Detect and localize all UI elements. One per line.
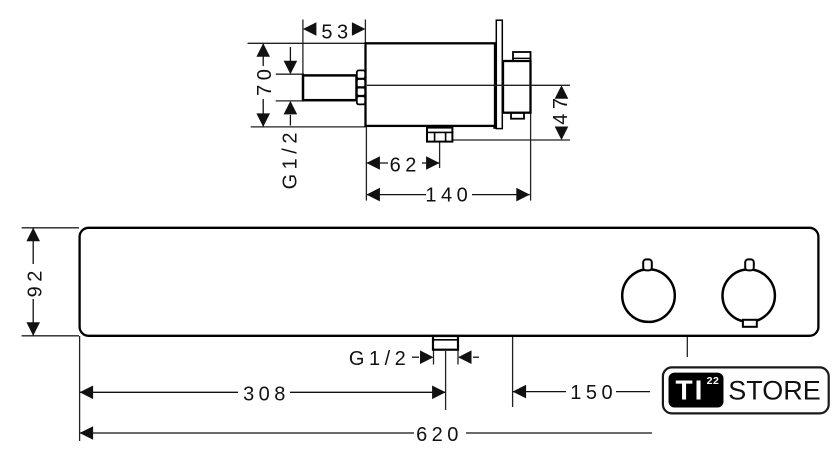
outlet knob top tab (513, 52, 531, 61)
svg-text:70: 70 (254, 65, 276, 96)
threaded connector ridge 3 (357, 88, 365, 96)
nut face divider right (445, 132, 447, 141)
main body rectangle (366, 43, 496, 126)
threaded connector ridge 2 (357, 79, 365, 87)
nut face divider left (434, 132, 436, 141)
svg-text:53: 53 (321, 21, 352, 43)
wire extension below bar between knobs (150 dim right) (686, 336, 688, 359)
knob 1 top nub (643, 259, 652, 270)
dimension 620 (80, 423, 652, 446)
svg-text:308: 308 (243, 383, 290, 405)
outlet lip line (433, 339, 458, 341)
dimension 308 (80, 382, 446, 405)
wire pipe-bottom extension line (G1/2 dim) (276, 100, 304, 102)
dimension 150 (513, 382, 652, 404)
inlet pipe spigot (303, 75, 357, 100)
dimension 140 (366, 184, 529, 206)
bottom nut on body (427, 128, 452, 142)
wire G1/2 left extension (433, 350, 435, 365)
svg-text:G1/2: G1/2 (280, 128, 302, 189)
wire extension line left of 53 dim (302, 20, 304, 75)
main bar (front elevation) (80, 228, 819, 336)
TI STORE logo outer box (663, 367, 829, 413)
wire extension line at knob right edge (140 dim) (530, 52, 532, 201)
svg-text:62: 62 (390, 154, 421, 176)
wire extension line right of 53 dim (364, 20, 366, 44)
outlet knob top tab inner line (513, 57, 531, 59)
knob 2 bottom tab (743, 320, 757, 327)
wire lower extension line of 47 dim (452, 139, 570, 141)
dimension 53 (303, 21, 366, 43)
outlet knob bottom tab (511, 113, 524, 119)
wire bar-bottom extension line (92 dim) (22, 335, 79, 337)
wire extension below bar at 150 dim left (512, 336, 514, 407)
svg-text:140: 140 (425, 184, 472, 206)
threaded connector ridge 4 (357, 96, 365, 104)
wire pipe-top extension line (G1/2 dim) (276, 73, 304, 75)
wire body-bottom extension line (70 dim, lower) (251, 126, 366, 128)
wire extension line below body left edge (62/140 dims) (365, 127, 367, 201)
svg-text:TI: TI (676, 375, 705, 406)
svg-text:150: 150 (570, 382, 617, 404)
wire bar-top extension line (92 dim) (22, 227, 79, 229)
svg-text:92: 92 (25, 266, 47, 297)
svg-text:47: 47 (550, 93, 572, 124)
dimension 92 (rotated) (25, 228, 47, 336)
flange bottom foot (493, 125, 497, 128)
knob circle 2 (723, 269, 775, 321)
wall flange plate (496, 20, 502, 128)
svg-text:STORE: STORE (728, 376, 821, 406)
svg-text:G1/2: G1/2 (349, 348, 410, 370)
wire extension below outlet center (308 dim) (445, 351, 447, 410)
knob 2 top nub (745, 259, 754, 270)
outlet knob main (503, 61, 531, 113)
dimension 47 (rotated) (550, 85, 572, 140)
wire G1/2 right extension (457, 350, 459, 365)
nut lip line (427, 131, 452, 133)
wire centerline through body and outlet knob (47 dim upper extension) (367, 84, 570, 86)
TI STORE logo black box (669, 373, 724, 408)
outlet stub under bar (433, 336, 458, 350)
TI STORE logo white halo (650, 357, 840, 423)
threaded connector ridge 1 (357, 70, 365, 78)
wire extension line below nut center (62 dim) (439, 142, 441, 168)
svg-text:22: 22 (707, 375, 720, 387)
wire body-top extension line (70 dim, upper) (248, 42, 366, 44)
svg-text:620: 620 (416, 424, 463, 446)
dimension 70 (254, 43, 276, 127)
dimension 62 (366, 153, 439, 176)
dimension G1/2 (front) (349, 348, 479, 370)
knob circle 1 (622, 269, 675, 322)
wire extension below bar left edge (308/620 dims) (79, 336, 81, 441)
dimension G1/2 (top view, rotated) (280, 47, 302, 189)
